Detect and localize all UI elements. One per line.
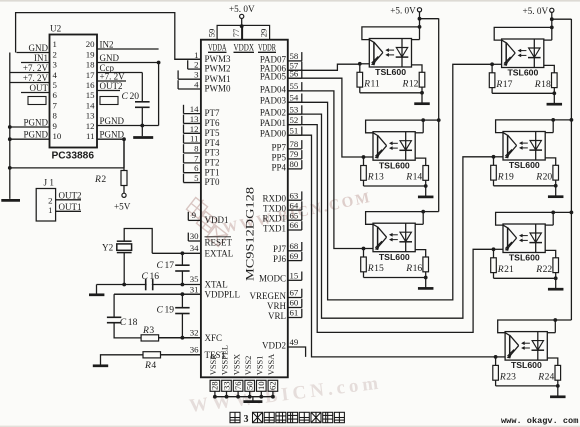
svg-text:R11: R11 (363, 78, 380, 89)
svg-text:9: 9 (53, 121, 58, 131)
svg-text:PAD04: PAD04 (260, 84, 287, 94)
svg-text:VDD1: VDD1 (205, 215, 229, 225)
node signal input opto #5 (492, 155, 496, 159)
svg-text:PAD02: PAD02 (260, 108, 286, 118)
svg-text:5: 5 (53, 80, 58, 90)
svg-text:69: 69 (290, 251, 299, 261)
resistor R11 (359, 64, 361, 73)
optocoupler #7 LED (537, 332, 539, 361)
wire hat #6 to rail (553, 211, 571, 213)
MCU U3 MC9S12DG128 body (201, 40, 288, 378)
wire hat #2 to rail (423, 119, 439, 121)
svg-text:3: 3 (244, 414, 249, 425)
optocoupler #5 LED (535, 132, 537, 161)
svg-text:18: 18 (128, 317, 138, 328)
svg-text:+7. 2V: +7. 2V (100, 72, 126, 82)
svg-text:79: 79 (290, 149, 299, 159)
svg-text:18: 18 (86, 60, 95, 70)
svg-text:8: 8 (53, 111, 58, 121)
svg-text:R22: R22 (535, 264, 552, 275)
svg-text:OUT: OUT (30, 83, 49, 93)
svg-text:IN2: IN2 (100, 39, 114, 49)
wire VDD2 pin49 (288, 347, 306, 357)
ground opto #3 (425, 278, 427, 289)
svg-text:OUT2: OUT2 (100, 81, 123, 91)
wire hat #5 to rail (553, 119, 571, 121)
svg-text:17: 17 (86, 70, 95, 80)
wire bottom opto #3 (364, 277, 426, 279)
svg-text:28: 28 (210, 381, 220, 390)
optocoupler #7 phototransistor (509, 335, 511, 356)
svg-text:8: 8 (194, 144, 199, 154)
svg-text:R13: R13 (367, 172, 384, 183)
svg-text:www. okagv. com: www. okagv. com (501, 416, 578, 426)
svg-text:+5. 0V: +5. 0V (229, 4, 255, 14)
svg-text:67: 67 (290, 288, 299, 298)
svg-text:C: C (157, 304, 164, 315)
svg-text:TSL600: TSL600 (507, 68, 538, 78)
svg-text:34: 34 (190, 243, 199, 253)
wire bottom opto #6 (494, 277, 556, 279)
svg-text:PGND: PGND (23, 130, 48, 140)
ground opto #5 (555, 186, 557, 197)
node signal input opto #6 (492, 247, 496, 251)
optocoupler #1 LED (401, 39, 403, 68)
resistor R23 (495, 357, 497, 366)
ground opto #2 (425, 186, 427, 197)
svg-text:VRL: VRL (268, 311, 286, 321)
svg-text:R18: R18 (534, 79, 551, 90)
svg-text:R20: R20 (535, 171, 552, 182)
resistor R12 (412, 65, 423, 72)
node XFC-C19 (181, 336, 185, 340)
resistor R15 (363, 249, 365, 258)
wire terminal #1 to rail (420, 18, 439, 20)
svg-text:PGND: PGND (23, 117, 48, 127)
resistor R22 (545, 250, 556, 257)
svg-text:PWM1: PWM1 (205, 74, 231, 84)
caption figure 3 chinese text (230, 412, 240, 422)
wire top U2-GND to MCU PWM3 (16, 13, 201, 60)
node signal input opto #7 (494, 355, 498, 359)
node EXTAL-C17 (181, 251, 185, 255)
resistor R18 (544, 65, 555, 72)
MCU top pin boxes 59 77 29 (217, 25, 242, 39)
wire PAD05 pin56 to opto2 input (288, 78, 364, 157)
svg-text:R12: R12 (402, 78, 419, 89)
resistor R13 (363, 157, 365, 166)
svg-text:PT2: PT2 (205, 157, 220, 167)
svg-text:OUT2: OUT2 (59, 190, 82, 200)
svg-text:TSL600: TSL600 (379, 252, 410, 262)
wire MCU ground bus (215, 396, 273, 398)
svg-text:11: 11 (190, 134, 198, 144)
wire bottom opto #5 (494, 185, 556, 187)
wire U2 pin12 to R2 node (120, 138, 124, 140)
svg-text:R14: R14 (405, 172, 422, 183)
svg-text:PGND: PGND (100, 130, 125, 140)
ground under MCU (252, 397, 254, 402)
wire hat #7 to rail end (555, 319, 571, 321)
svg-text:68: 68 (290, 241, 299, 251)
optocoupler #6 hat wire (496, 212, 554, 225)
svg-text:PAD05: PAD05 (260, 72, 287, 82)
svg-text:VSSA: VSSA (267, 354, 276, 375)
svg-text:RXD0: RXD0 (262, 194, 286, 204)
svg-text:PT4: PT4 (205, 138, 221, 148)
optocoupler #6 light arrows (521, 235, 528, 237)
optocoupler #2 LED (405, 132, 407, 161)
svg-text:PJ6: PJ6 (273, 254, 287, 264)
svg-text:PGND: PGND (100, 116, 125, 126)
svg-text:J 1: J 1 (44, 178, 55, 188)
ground opto #1 (421, 93, 423, 104)
wire VDDPLL loop via C18 (114, 293, 201, 295)
IC U2 PC33886 body (50, 35, 98, 148)
svg-text:RESET: RESET (205, 237, 233, 247)
wire U2 pin19 GND to PGND bus (158, 63, 160, 126)
svg-text:2: 2 (48, 195, 52, 205)
svg-text:VSS1: VSS1 (256, 356, 265, 376)
node XTAL-C17 (181, 283, 185, 287)
svg-text:PT3: PT3 (205, 148, 221, 158)
svg-text:PT6: PT6 (205, 118, 221, 128)
optocoupler #5 phototransistor (507, 135, 509, 156)
svg-text:PWM2: PWM2 (205, 64, 231, 74)
svg-text:12: 12 (190, 124, 199, 134)
svg-text:36: 36 (190, 345, 199, 355)
optocoupler #2 phototransistor (377, 135, 379, 156)
svg-text:16: 16 (86, 80, 95, 90)
ground near crystal (96, 285, 98, 295)
wire PAD06 pin57 to opto1 input (288, 64, 360, 70)
svg-text:OUT1: OUT1 (59, 202, 82, 212)
svg-text:C: C (122, 91, 129, 102)
svg-text:TSL600: TSL600 (511, 360, 542, 370)
svg-text:10: 10 (256, 381, 266, 390)
svg-text:20: 20 (86, 39, 95, 49)
svg-text:VSSX: VSSX (232, 354, 241, 375)
svg-text:R24: R24 (537, 371, 554, 382)
node PGND-C20 junction (140, 124, 144, 128)
svg-text:+5V: +5V (114, 202, 131, 212)
svg-text:VSSPLL: VSSPLL (221, 345, 230, 375)
svg-text:5: 5 (194, 173, 199, 183)
optocoupler #4 hat wire (494, 27, 552, 40)
wire PAD03 pin54 to opto4 input (288, 64, 492, 300)
optocoupler #3 phototransistor (377, 227, 379, 248)
svg-text:6: 6 (194, 163, 199, 173)
svg-text:35: 35 (190, 274, 199, 284)
svg-text:17: 17 (165, 260, 175, 271)
+5.0V rail left column (438, 18, 440, 211)
svg-text:64: 64 (290, 200, 299, 210)
optocoupler TSL600 #5 body (503, 132, 545, 161)
svg-text:62: 62 (268, 381, 278, 390)
wire bottom opto #4 (492, 92, 554, 94)
svg-text:VDDPLL: VDDPLL (205, 289, 241, 299)
wire bottom opto #2 (364, 185, 426, 187)
svg-text:15: 15 (86, 90, 95, 100)
svg-text:60: 60 (290, 298, 299, 308)
svg-text:19: 19 (165, 304, 175, 315)
svg-text:4: 4 (53, 70, 58, 80)
wire PAD04 pin55 to opto3 input (288, 91, 364, 249)
svg-text:EXTAL: EXTAL (205, 248, 234, 258)
svg-text:PT7: PT7 (205, 108, 221, 118)
svg-text:13: 13 (190, 114, 199, 124)
svg-text:R15: R15 (367, 263, 384, 274)
wire PAD02 pin53 to opto5 input (288, 114, 494, 318)
svg-text:3: 3 (194, 70, 199, 80)
svg-text:2: 2 (194, 60, 198, 70)
svg-text:7: 7 (53, 100, 58, 110)
resistor R19 (493, 157, 495, 166)
ground bottom-left (1, 199, 20, 202)
svg-text:12: 12 (86, 121, 95, 131)
wire bottom opto #7 (496, 385, 558, 387)
optocoupler #4 LED (533, 39, 535, 68)
svg-text:VDDX: VDDX (234, 42, 255, 52)
optocoupler #3 hat wire (366, 212, 424, 225)
svg-text:R16: R16 (405, 263, 422, 274)
svg-text:32: 32 (190, 327, 199, 337)
svg-text:77: 77 (231, 28, 241, 37)
svg-text:VDD2: VDD2 (262, 340, 286, 350)
svg-text:PT0: PT0 (205, 177, 221, 187)
svg-text:PJ7: PJ7 (273, 244, 287, 254)
svg-text:PP7: PP7 (271, 142, 286, 152)
svg-text:59: 59 (206, 29, 216, 38)
svg-text:PAD01: PAD01 (260, 118, 286, 128)
svg-text:Y2: Y2 (102, 243, 114, 253)
svg-text:2: 2 (53, 49, 57, 59)
svg-text:TXD0: TXD0 (263, 204, 286, 214)
svg-text:VSS2: VSS2 (244, 356, 253, 376)
svg-text:55: 55 (290, 81, 299, 91)
svg-text:VDDA: VDDA (208, 42, 227, 52)
svg-text:76: 76 (233, 381, 243, 390)
svg-text:14: 14 (86, 100, 95, 110)
svg-text:49: 49 (290, 337, 299, 347)
svg-text:TXD1: TXD1 (263, 223, 286, 233)
node Y2-XTAL junction (122, 283, 126, 287)
resistor R17 (491, 64, 493, 73)
optocoupler TSL600 #1 body (369, 39, 411, 68)
resistor R24 (547, 358, 558, 365)
wire R4 to ground (101, 355, 144, 365)
svg-text:TSL600: TSL600 (375, 67, 406, 77)
wire Y2 bottom to XTAL (123, 253, 125, 285)
watermark CJK stamp (185, 195, 210, 221)
svg-text:30: 30 (190, 231, 199, 241)
svg-text:54: 54 (290, 93, 299, 103)
svg-text:65: 65 (290, 210, 299, 220)
svg-text:78: 78 (290, 139, 299, 149)
wire PAD00 pin51 to opto7 input (288, 135, 496, 357)
svg-text:VREGEN: VREGEN (250, 291, 287, 301)
wire PAD01 pin52 to opto6 input (288, 125, 494, 333)
svg-text:R2: R2 (94, 174, 106, 185)
node VDDPLL-C19 (181, 292, 185, 296)
node signal input opto #3 (362, 247, 366, 251)
scan edge artifacts (0, 0, 580, 2)
optocoupler #4 phototransistor (505, 43, 507, 64)
resistor R16 (415, 250, 426, 257)
svg-text:9: 9 (192, 210, 197, 220)
svg-text:U2: U2 (50, 24, 62, 34)
svg-text:13: 13 (86, 111, 95, 121)
optocoupler #2 hat wire (366, 120, 424, 133)
optocoupler #2 light arrows (391, 142, 398, 144)
U2 pin15 stub box right (100, 97, 118, 105)
svg-text:3: 3 (53, 60, 58, 70)
svg-text:+7. 2V: +7. 2V (23, 63, 49, 73)
svg-text:50: 50 (245, 381, 255, 390)
svg-text:PWM3: PWM3 (205, 54, 232, 64)
optocoupler #1 hat wire (362, 27, 420, 40)
svg-text:14: 14 (190, 104, 199, 114)
svg-text:MC9S12DG128: MC9S12DG128 (245, 187, 257, 281)
svg-text:63: 63 (290, 190, 299, 200)
optocoupler TSL600 #6 body (503, 224, 545, 253)
svg-text:61: 61 (290, 308, 299, 318)
optocoupler #4 light arrows (520, 50, 527, 52)
svg-text:IN1: IN1 (34, 53, 48, 63)
svg-text:GND: GND (29, 43, 49, 53)
optocoupler #5 hat wire (496, 120, 554, 133)
svg-text:16: 16 (150, 271, 160, 282)
ground under R4 (93, 364, 108, 367)
wire bottom opto #1 (360, 92, 422, 94)
svg-text:51: 51 (290, 125, 299, 135)
resistor R20 (545, 158, 556, 165)
optocoupler #3 LED (405, 223, 407, 252)
svg-text:R23: R23 (499, 371, 516, 382)
svg-text:R17: R17 (495, 79, 512, 90)
svg-text:6: 6 (53, 90, 58, 100)
svg-text:RXD1: RXD1 (262, 214, 286, 224)
svg-text:PC33886: PC33886 (52, 151, 95, 162)
svg-text:4: 4 (194, 80, 199, 90)
svg-text:PWM0: PWM0 (205, 84, 232, 94)
svg-text:PAD03: PAD03 (260, 96, 287, 106)
resistor R21 (493, 249, 495, 257)
ground opto #6 (555, 278, 557, 289)
svg-text:TSL600: TSL600 (379, 160, 410, 170)
node signal input opto #1 (358, 62, 362, 66)
wire PGND bus to R2 node (10, 167, 124, 169)
optocoupler #6 LED (535, 224, 537, 253)
svg-text:29: 29 (258, 29, 268, 38)
+5.0V rail right column (570, 19, 572, 320)
svg-text:TSL600: TSL600 (509, 160, 540, 170)
GND bus left (9, 53, 11, 199)
svg-text:PP4: PP4 (271, 162, 286, 172)
ground opto #7 (557, 386, 559, 397)
svg-text:GND: GND (100, 53, 120, 63)
optocoupler #7 hat wire (498, 320, 556, 333)
node signal input opto #2 (362, 155, 366, 159)
svg-text:+5. 0V: +5. 0V (390, 5, 416, 15)
svg-text:XTAL: XTAL (205, 280, 228, 290)
optocoupler #1 light arrows (388, 49, 395, 51)
svg-text:TSL600: TSL600 (509, 253, 540, 263)
svg-text:19: 19 (86, 49, 95, 59)
U2 pin7 stub box left (28, 97, 46, 105)
optocoupler TSL600 #3 body (373, 223, 415, 252)
svg-text:PT1: PT1 (205, 167, 220, 177)
ground opto #4 (553, 93, 555, 104)
svg-text:53: 53 (290, 104, 299, 114)
optocoupler TSL600 #2 body (373, 132, 415, 161)
svg-text:15: 15 (290, 271, 299, 281)
svg-text:VSSR: VSSR (209, 354, 218, 375)
+5V terminal under R2 (122, 193, 126, 197)
resistor R14 (415, 158, 426, 165)
optocoupler TSL600 #7 body (505, 332, 547, 361)
svg-text:XFC: XFC (205, 333, 223, 343)
svg-text:33: 33 (221, 381, 231, 390)
optocoupler #1 phototransistor (373, 42, 375, 63)
svg-text:+7. 2V: +7. 2V (23, 73, 49, 83)
svg-text:1: 1 (48, 205, 52, 215)
svg-text:7: 7 (194, 153, 199, 163)
svg-text:PT5: PT5 (205, 128, 221, 138)
svg-text:PP5: PP5 (271, 152, 286, 162)
optocoupler #6 phototransistor (507, 228, 509, 249)
svg-text:R4: R4 (144, 360, 156, 371)
svg-text:80: 80 (290, 159, 299, 169)
ground under C20 (133, 136, 153, 139)
svg-text:20: 20 (130, 91, 140, 102)
svg-text:PAD00: PAD00 (260, 129, 287, 139)
svg-text:31: 31 (190, 284, 199, 294)
svg-text:52: 52 (290, 115, 299, 125)
svg-text:1: 1 (194, 50, 198, 60)
node signal input opto #4 (490, 62, 494, 66)
svg-text:R19: R19 (497, 171, 514, 182)
wire Y2 top to EXTAL (124, 229, 152, 254)
svg-text:11: 11 (86, 131, 94, 141)
optocoupler #5 light arrows (521, 142, 528, 144)
wire terminal #4 to rail (552, 18, 572, 20)
svg-text:MODC: MODC (259, 274, 286, 284)
svg-text:66: 66 (290, 220, 299, 230)
svg-text:VRH: VRH (267, 301, 287, 311)
svg-text:+5. 0V: +5. 0V (522, 6, 548, 16)
optocoupler TSL600 #4 body (502, 39, 544, 68)
svg-text:1: 1 (53, 39, 57, 49)
svg-text:VDDR: VDDR (258, 42, 276, 52)
optocoupler #3 light arrows (391, 234, 398, 236)
wire hat #3 to rail end (423, 211, 439, 213)
svg-text:C: C (157, 260, 164, 271)
optocoupler #7 light arrows (523, 342, 530, 344)
svg-text:10: 10 (53, 131, 62, 141)
svg-text:R21: R21 (497, 264, 514, 275)
